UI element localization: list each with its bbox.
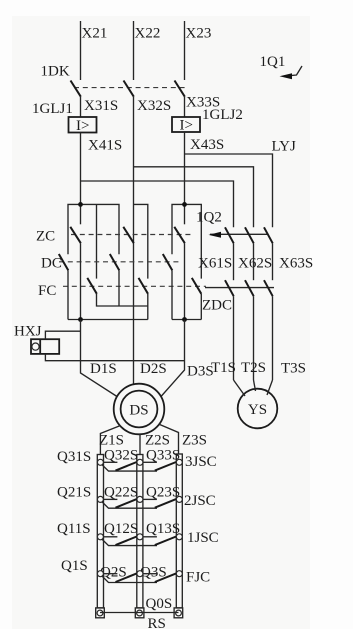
relay HXJ <box>14 324 59 354</box>
junction dot phase1 top bus <box>78 202 83 207</box>
terminal tap Q32S circle <box>137 459 143 465</box>
node Q2S <box>100 565 127 581</box>
node Q22S <box>104 485 138 501</box>
wire Z1S <box>99 426 124 456</box>
wire route phase1 to X61S <box>81 181 234 227</box>
node X43S <box>190 137 224 153</box>
node X41S <box>88 138 122 154</box>
svg-text:Q21S: Q21S <box>57 485 91 501</box>
svg-text:X21: X21 <box>82 26 108 42</box>
wire ZC3 down <box>184 243 186 319</box>
svg-text:FC: FC <box>38 283 56 299</box>
contactor ZDC contacts <box>202 280 274 313</box>
node X62S <box>238 256 272 272</box>
terminal tap Q33S circle <box>176 459 182 465</box>
resistor RS label <box>148 616 166 629</box>
svg-text:Q13S: Q13S <box>146 521 180 537</box>
wire T3S <box>272 296 274 380</box>
contactor 3JSC contact b <box>143 462 176 471</box>
wire phase2 middle <box>133 97 135 385</box>
motor DS <box>114 384 165 435</box>
svg-text:Q12S: Q12S <box>104 521 138 537</box>
relay 1GLJ1 <box>32 101 97 134</box>
node Q23S <box>146 485 180 501</box>
svg-text:Q22S: Q22S <box>104 485 138 501</box>
svg-text:FJC: FJC <box>186 570 210 586</box>
wire phase3 blade to relay <box>184 97 186 117</box>
contactor FJC contact a <box>102 573 157 582</box>
node Q31S <box>57 449 91 465</box>
resistor RS box3 <box>176 454 182 608</box>
node Q12S <box>104 521 138 537</box>
relay 1GLJ2 <box>172 107 243 134</box>
svg-text:X63S: X63S <box>279 256 313 272</box>
wire phase3 relay to bottom <box>184 132 186 224</box>
svg-text:X61S: X61S <box>198 256 232 272</box>
wire X63S link <box>272 243 274 280</box>
wire FC3 down <box>200 294 202 320</box>
node Q3S <box>140 565 167 581</box>
svg-text:X23: X23 <box>186 26 212 42</box>
switch 1Q1 label and arrow <box>260 54 303 79</box>
svg-text:X22: X22 <box>135 26 161 42</box>
node Q0S <box>146 596 173 612</box>
svg-text:RS: RS <box>148 616 166 629</box>
switch 1DK <box>41 64 187 97</box>
wire HXJ bottom and terminal strip <box>45 354 184 361</box>
svg-text:1GLJ1: 1GLJ1 <box>32 101 73 117</box>
svg-text:I>: I> <box>180 118 193 134</box>
svg-text:X43S: X43S <box>190 137 224 153</box>
node X63S <box>279 256 313 272</box>
svg-text:D2S: D2S <box>140 361 167 377</box>
svg-text:Q32S: Q32S <box>104 448 138 464</box>
node X61S <box>198 256 232 272</box>
junction dot phase3 top bus <box>182 202 187 207</box>
terminal RS bottom 3 <box>174 608 183 618</box>
wire phase1 blade to relay <box>80 97 82 117</box>
wire X62S link <box>253 243 255 280</box>
node Q33S <box>146 448 180 464</box>
wire DC2 down <box>118 270 120 306</box>
terminal tap Q2S circle <box>137 571 143 577</box>
svg-text:ZDC: ZDC <box>202 298 232 314</box>
wire phase X23 upper <box>185 21 212 80</box>
contactor FJC contact b <box>143 573 176 582</box>
node Q13S <box>146 521 180 537</box>
wire top bus segment 2 <box>134 204 148 278</box>
node Q1S <box>61 558 88 574</box>
junction dot D3S <box>182 317 187 322</box>
svg-text:Q1S: Q1S <box>61 558 88 574</box>
node Q11S <box>57 521 91 537</box>
node LYJ <box>272 139 296 155</box>
node D2S <box>140 361 167 377</box>
node X31S <box>84 98 118 114</box>
svg-text:Q31S: Q31S <box>57 449 91 465</box>
svg-text:T3S: T3S <box>281 361 306 377</box>
node Q21S <box>57 485 91 501</box>
svg-text:X31S: X31S <box>84 98 118 114</box>
svg-text:1DK: 1DK <box>41 64 70 80</box>
svg-text:1Q2: 1Q2 <box>196 210 222 226</box>
svg-text:D1S: D1S <box>90 361 117 377</box>
wire Z3S <box>159 424 208 454</box>
wire route phase2 to X62S <box>134 167 254 227</box>
contactor 1JSC label <box>187 530 219 546</box>
svg-text:LYJ: LYJ <box>272 139 296 155</box>
wire ZC1 down <box>80 243 82 319</box>
svg-text:X41S: X41S <box>88 138 122 154</box>
svg-text:D3S: D3S <box>187 364 214 380</box>
contactor 3JSC label <box>185 454 217 470</box>
contactor 3JSC contact a <box>102 462 157 471</box>
wire T1S <box>233 296 235 380</box>
node T2S <box>241 360 266 376</box>
node T1S <box>211 360 236 376</box>
wire bottom bus left <box>68 319 148 321</box>
wire D3S to motor <box>161 320 214 397</box>
wire top bus segment 3 <box>172 204 201 278</box>
svg-text:X32S: X32S <box>137 98 171 114</box>
svg-text:I>: I> <box>76 118 89 134</box>
contactor 1JSC contact b <box>143 537 176 546</box>
switch 1Q2 contacts <box>196 210 273 244</box>
wire bottom bus right <box>172 319 201 321</box>
wire Q0S bus <box>100 612 179 614</box>
wire phase1 relay to bottom <box>80 133 82 225</box>
wire phase X22 upper <box>134 21 161 80</box>
terminal tap Q1S circle <box>97 571 103 577</box>
svg-text:3JSC: 3JSC <box>185 454 217 470</box>
svg-text:DS: DS <box>129 403 148 419</box>
svg-text:Q11S: Q11S <box>57 521 91 537</box>
wire HXJ top <box>45 331 80 339</box>
wire T2S <box>253 296 255 380</box>
svg-text:T2S: T2S <box>241 360 266 376</box>
node X32S <box>137 98 171 114</box>
terminal tap Q21S circle <box>97 496 103 502</box>
node X33S <box>186 95 220 111</box>
wire Z2S <box>140 433 170 456</box>
svg-text:DC: DC <box>41 256 62 272</box>
wire top bus segment 1 <box>68 204 119 254</box>
svg-text:HXJ: HXJ <box>14 324 42 340</box>
svg-text:1JSC: 1JSC <box>187 530 219 546</box>
terminal tap Q12S circle <box>137 534 143 540</box>
wire T1S into YS <box>234 380 246 396</box>
svg-text:YS: YS <box>248 402 267 418</box>
terminal tap Q11S circle <box>97 534 103 540</box>
wire FC1 down <box>97 294 148 306</box>
svg-text:Q0S: Q0S <box>146 596 173 612</box>
svg-text:1Q1: 1Q1 <box>260 54 286 70</box>
contactor 1JSC contact a <box>102 537 157 546</box>
terminal RS bottom 1 <box>96 608 105 618</box>
contactor ZC contacts <box>36 227 192 245</box>
wire DC1 down <box>67 270 69 319</box>
wire T2S into YS <box>254 380 256 391</box>
terminal RS bottom 2 <box>135 608 144 618</box>
svg-text:Z2S: Z2S <box>145 433 170 449</box>
contactor DC contacts <box>41 254 180 272</box>
wire phase X21 upper <box>81 21 108 80</box>
contactor FJC label <box>186 570 210 586</box>
junction dot D1S <box>78 317 83 322</box>
wire T3S into YS <box>267 380 273 395</box>
wire X61S link <box>233 243 235 280</box>
svg-text:ZC: ZC <box>36 229 55 245</box>
contactor 2JSC contact a <box>102 499 157 508</box>
wire DC3 down <box>171 270 173 319</box>
svg-text:1GLJ2: 1GLJ2 <box>202 107 243 123</box>
svg-text:X62S: X62S <box>238 256 272 272</box>
contactor 2JSC contact b <box>143 499 176 508</box>
svg-text:2JSC: 2JSC <box>184 493 216 509</box>
svg-text:Z3S: Z3S <box>182 433 207 449</box>
contactor FC contacts <box>38 278 206 299</box>
wire FC2 down <box>147 294 149 320</box>
node Q32S <box>104 448 138 464</box>
terminal tap Q31S circle <box>97 459 103 465</box>
terminal tap Q23S circle <box>176 496 182 502</box>
svg-text:Q23S: Q23S <box>146 485 180 501</box>
motor YS <box>238 389 278 429</box>
contactor 2JSC label <box>184 493 216 509</box>
terminal tap Q3S circle <box>176 571 182 577</box>
svg-text:T1S: T1S <box>211 360 236 376</box>
wire route phase3 to X63S <box>185 154 273 227</box>
node T3S <box>281 361 306 377</box>
terminal tap Q13S circle <box>176 534 182 540</box>
resistor RS box1 <box>97 455 103 608</box>
svg-text:Q33S: Q33S <box>146 448 180 464</box>
wire D1S to motor <box>81 320 118 397</box>
wire branch to FC1 <box>96 204 98 278</box>
svg-text:Z1S: Z1S <box>99 433 124 449</box>
resistor RS box2 <box>137 455 143 608</box>
terminal tap Q22S circle <box>137 496 143 502</box>
